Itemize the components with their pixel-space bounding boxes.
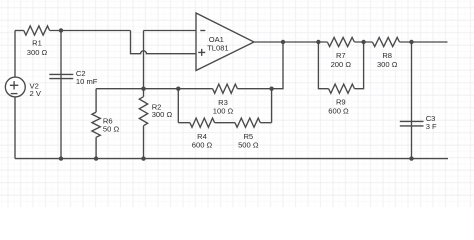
node: R9 left tap <box>316 40 320 44</box>
svg-text:300 Ω: 300 Ω <box>377 60 398 69</box>
V2 plus sign <box>10 81 18 89</box>
wire: output rail <box>254 41 327 43</box>
resistor R6 bottom lead <box>95 137 97 158</box>
svg-text:50 Ω: 50 Ω <box>103 124 120 133</box>
resistor R9 <box>329 84 355 93</box>
svg-text:R8: R8 <box>382 51 392 60</box>
svg-text:10 mF: 10 mF <box>76 77 98 86</box>
wire: R8 to right end <box>400 41 448 43</box>
wire: R3 left lead <box>178 88 212 90</box>
svg-text:2 V: 2 V <box>30 89 42 98</box>
svg-text:200 Ω: 200 Ω <box>331 60 352 69</box>
svg-text:OA1: OA1 <box>209 35 224 44</box>
node: C3 top junction <box>409 40 413 44</box>
resistor R8 <box>372 37 399 46</box>
wire: R3 right lead <box>237 88 271 90</box>
wire: R7 to R8 <box>354 41 372 43</box>
wire: minus input horizontal <box>144 30 197 32</box>
op-amp OA1 <box>196 13 254 71</box>
node: R2 bottom <box>141 156 145 160</box>
resistor R2 <box>139 97 147 126</box>
wire: R1 to plus-path elbow <box>50 30 131 32</box>
wire: V2 top lead to top rail <box>14 31 16 78</box>
resistor R6 top lead <box>95 89 97 112</box>
resistor R3 <box>213 84 238 93</box>
node: C3 bottom <box>409 156 413 160</box>
wire: bottom rail <box>15 158 448 160</box>
node: feedback tap <box>281 40 285 44</box>
wire: R9 right riser <box>355 42 364 89</box>
capacitor C2 plates <box>49 74 73 78</box>
node: R3 right junction <box>269 87 273 91</box>
voltage source V2 <box>5 77 25 97</box>
wire: minus riser down to mid row <box>143 31 145 89</box>
op-amp plus mark <box>198 49 205 56</box>
wire: R4-R5 link <box>215 122 235 124</box>
svg-text:500 Ω: 500 Ω <box>238 140 259 149</box>
svg-text:600 Ω: 600 Ω <box>328 107 349 116</box>
node: minus/R2 junction <box>141 87 145 91</box>
node: R1/C2/plus junction <box>59 28 63 32</box>
node: R7/R8/R9 junction <box>361 40 365 44</box>
wire: feedback from output down to R3 right node <box>272 42 283 89</box>
svg-text:3 F: 3 F <box>426 122 437 131</box>
resistor R2 bottom lead <box>143 126 145 159</box>
capacitor C3 top lead <box>411 42 413 159</box>
svg-text:R1: R1 <box>32 38 42 47</box>
node: R3 left junction <box>176 87 180 91</box>
resistor R5 <box>235 118 260 127</box>
wire: V2 bottom lead <box>14 97 16 159</box>
wire: R4 left lead <box>178 122 190 124</box>
resistor R1 <box>24 26 50 35</box>
resistor R2 top lead <box>143 89 145 97</box>
wire: R9 left riser <box>318 42 328 89</box>
wire: R5 right lead <box>260 122 271 124</box>
wire: parallel block right stub <box>271 89 273 123</box>
resistor R4 <box>190 118 215 127</box>
capacitor C3 plates <box>400 121 424 126</box>
svg-text:R7: R7 <box>336 51 346 60</box>
svg-text:TL081: TL081 <box>207 44 229 53</box>
node: R6 bottom <box>94 156 98 160</box>
wire: mid row R6 corner to R3 left node <box>96 88 178 90</box>
svg-text:100 Ω: 100 Ω <box>213 106 234 115</box>
op-amp minus mark <box>200 30 205 32</box>
capacitor C2 top lead <box>60 31 62 159</box>
svg-text:600 Ω: 600 Ω <box>192 140 213 149</box>
V2 minus sign <box>11 93 18 95</box>
wire: plus input path with hop over minus riser <box>131 31 197 54</box>
resistor R7 <box>327 37 354 46</box>
svg-text:300 Ω: 300 Ω <box>152 110 173 119</box>
wire: parallel block left stub <box>177 89 179 123</box>
node: C2 bottom <box>59 156 63 160</box>
resistor R6 <box>92 112 100 137</box>
svg-text:R9: R9 <box>336 98 346 107</box>
svg-text:300 Ω: 300 Ω <box>27 48 48 57</box>
wire: top rail left segment into R1 <box>15 30 24 32</box>
